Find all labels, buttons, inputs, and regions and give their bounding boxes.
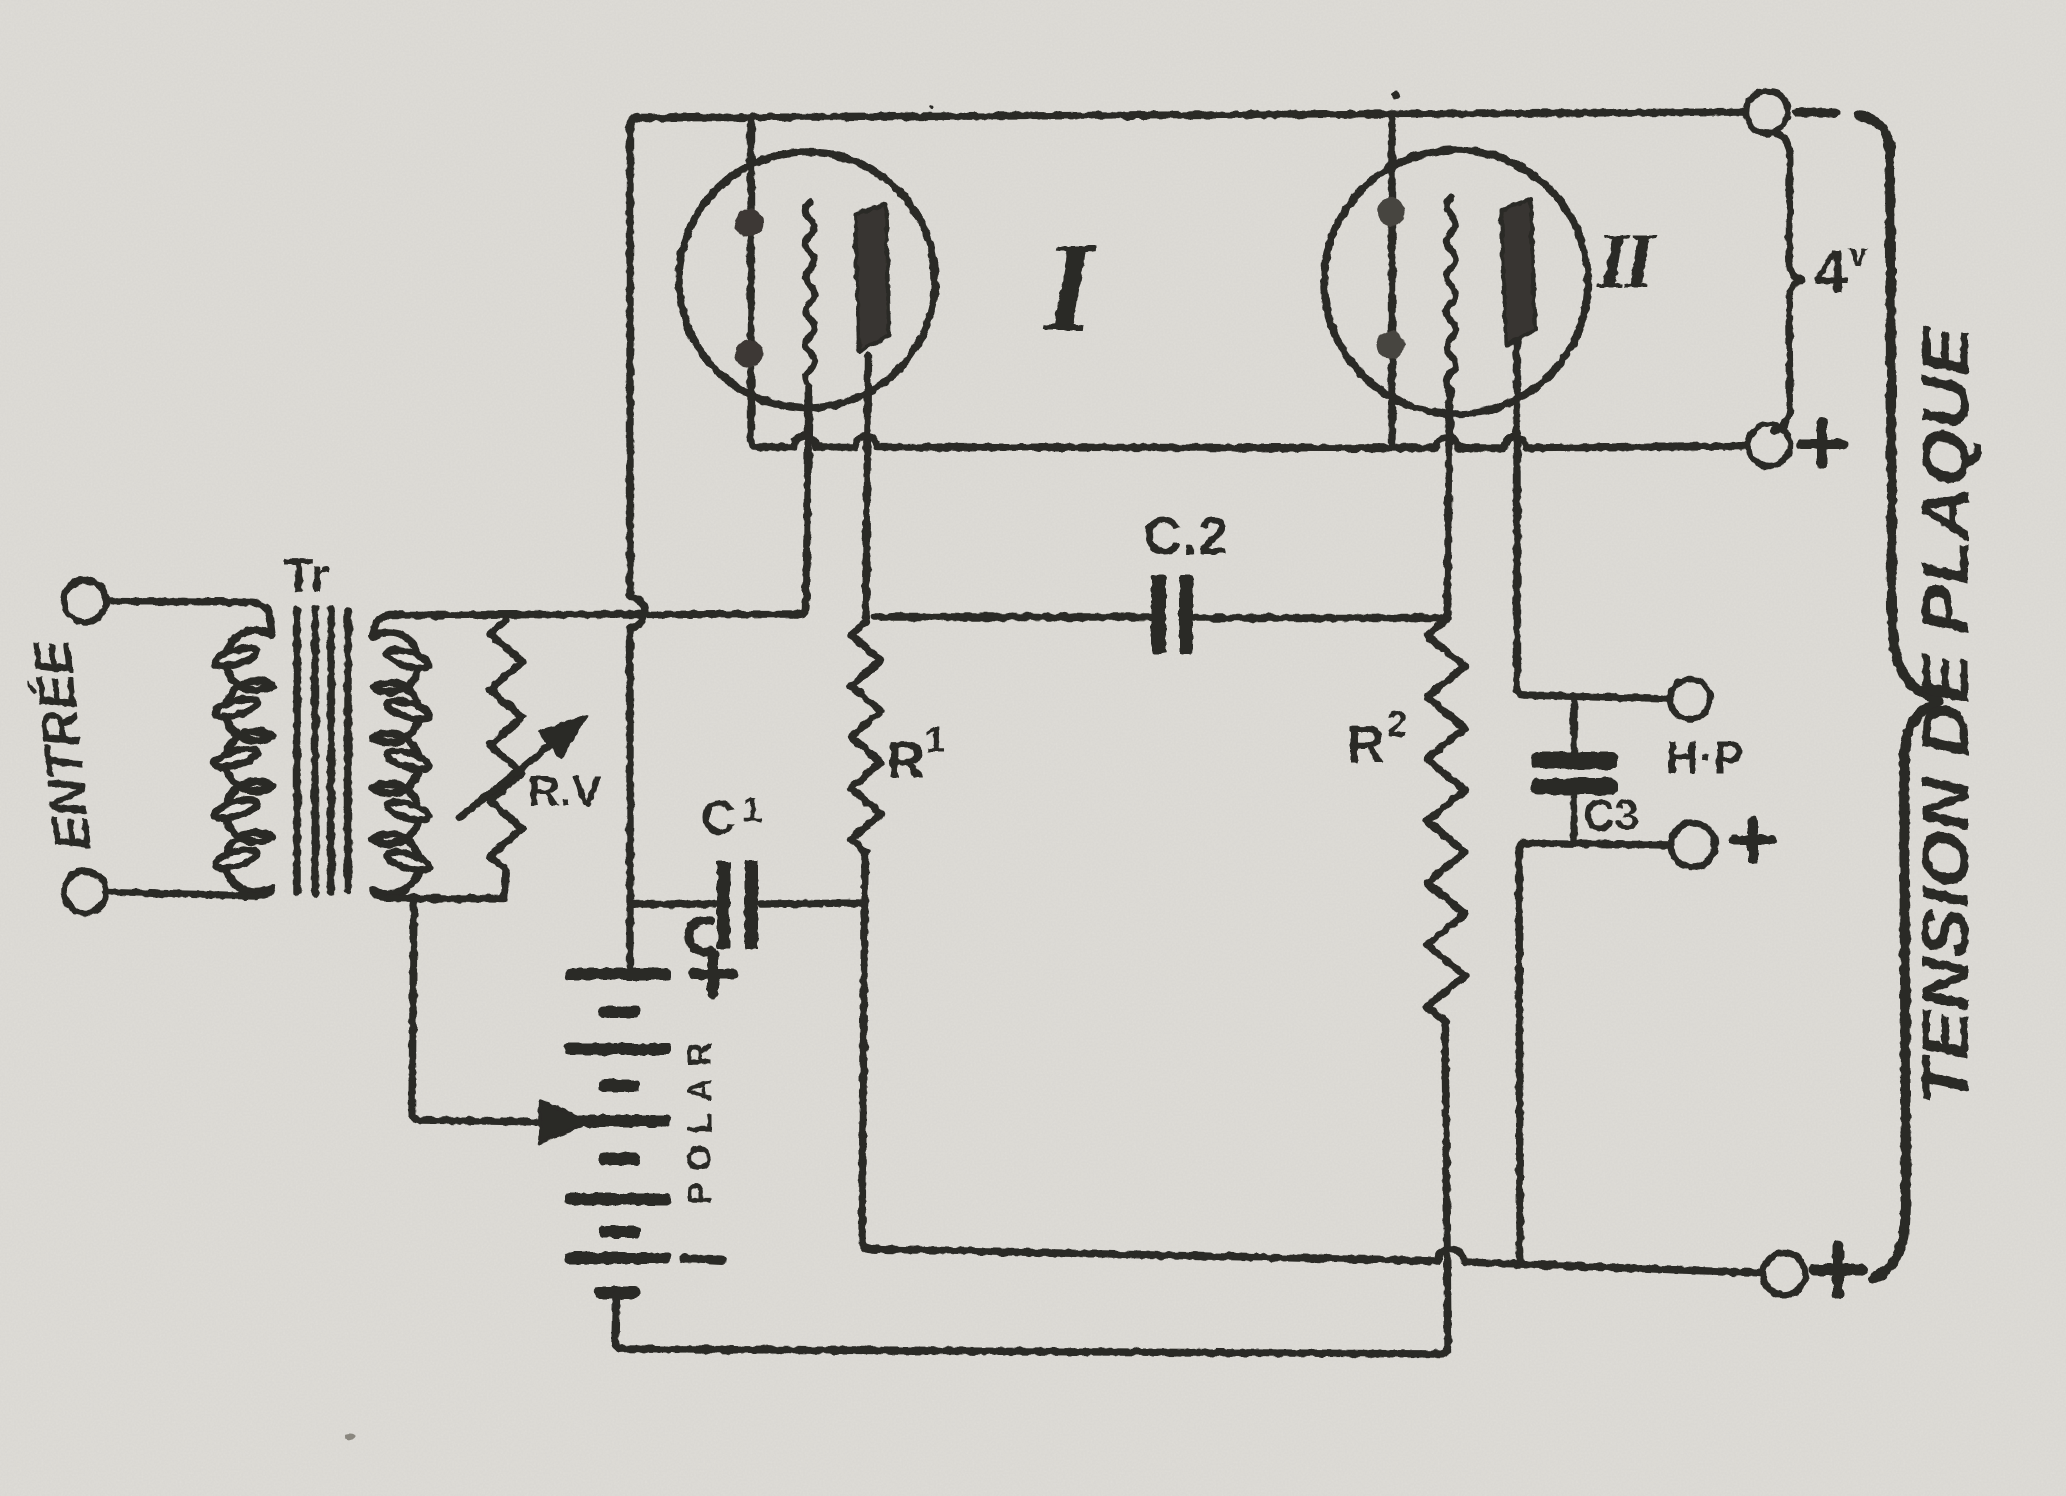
terminal: +4V filament (right) [1748, 424, 1790, 466]
ink speck near tube I [929, 105, 934, 110]
svg-text:H·P: H·P [1666, 732, 1744, 783]
wire: +HT rail with hop over R2 return wire [870, 1248, 1763, 1273]
svg-text:R: R [1347, 716, 1385, 774]
tube II grid (wavy electrode) [1447, 197, 1456, 391]
label C1 [701, 789, 762, 845]
tube I envelope [679, 152, 935, 408]
wire: tube I grid lead down to grid bus [799, 386, 809, 614]
transformer Tr primary winding [226, 630, 272, 892]
svg-text:2: 2 [1387, 703, 1407, 744]
wire: tap from secondary bottom down to battery arrow [412, 899, 545, 1122]
minus mark at battery POLAR bottom [684, 1258, 722, 1260]
svg-text:I: I [1042, 216, 1098, 358]
brace: TENSION DE PLAQUE (right side) [1858, 116, 1939, 1278]
brace: 4V filament battery [1774, 134, 1803, 431]
plus sign at H.P bottom terminal [1734, 821, 1772, 859]
transformer Tr secondary winding eyes [385, 646, 431, 874]
wire: secondary top to tube I grid (grid bus) [373, 614, 799, 637]
svg-text:4: 4 [1814, 238, 1848, 305]
wire: R1 bottom to C1 junction and down to +HT rail corner [862, 852, 870, 1249]
wire: C3 lower stub [1570, 795, 1577, 843]
resistor R1 [851, 622, 881, 852]
wire: +4V filament bus with hops over grid and plate leads [758, 436, 1747, 448]
R.V arrow head [539, 716, 586, 758]
minus sign at - terminal [1797, 112, 1835, 113]
wire: C1 horizontal wire left of plates [630, 900, 714, 907]
svg-text:R: R [887, 732, 925, 790]
stray C mark near battery plus [688, 920, 712, 952]
tube II filament pin dot upper [1377, 198, 1405, 226]
wire: C1 horizontal wire right of plates [761, 903, 862, 904]
wire: H.P top terminal wire from tube II plate [1524, 695, 1670, 699]
svg-text:R.V: R.V [528, 767, 602, 816]
label 4V [1814, 236, 1868, 305]
terminal: ENTREE upper [64, 580, 106, 622]
wire: left tall vertical (grid return) with hop over grid wire [630, 117, 645, 966]
wire: tube I plate lead down to R1 top junction [866, 356, 868, 617]
tube I grid (wavy electrode) [806, 202, 815, 386]
capacitor C3 [1531, 752, 1618, 795]
tube I plate (anode slab) [855, 204, 889, 351]
wire: tube II grid lead down to C2/R2 junction [1447, 391, 1450, 618]
svg-text:C3: C3 [1583, 791, 1639, 840]
wire: secondary bottom to R.V bottom with tap junction [373, 890, 503, 900]
wire: transformer primary bottom to ENTREE lower terminal [106, 888, 272, 897]
wire: grid circuit of tube II / C2 coupling wire [874, 617, 1443, 618]
plus sign at +HT terminal [1814, 1246, 1862, 1294]
wire: tube II plate lead down to H.P terminal wire [1517, 342, 1524, 695]
svg-text:C.2: C.2 [1143, 507, 1228, 566]
tube II envelope [1324, 150, 1588, 414]
transformer Tr primary winding eyes [213, 644, 259, 872]
plus sign at +4V terminal [1801, 423, 1843, 465]
label R1 [887, 719, 945, 790]
tube I filament pin dot upper [735, 209, 763, 237]
capacitor C1 [717, 861, 758, 949]
wire: bottom return wire from battery to R2 bottom [622, 1025, 1448, 1354]
svg-text:1: 1 [925, 719, 945, 760]
battery POLAR plates [565, 968, 671, 1299]
tube II filament wire [1388, 117, 1395, 447]
terminal: HT negative (top right) [1746, 91, 1788, 133]
transformer Tr core [297, 608, 348, 894]
plus sign at battery POLAR top [694, 955, 732, 993]
svg-text:TENSION DE PLAQUE: TENSION DE PLAQUE [1908, 325, 1982, 1105]
wire: H.P bottom terminal wire and drop to +HT rail [1519, 843, 1671, 1261]
tube I filament wire [751, 117, 758, 447]
resistor R.V (volume control) [490, 620, 522, 899]
terminal: H.P bottom [1671, 823, 1715, 867]
svg-text:Tr: Tr [284, 550, 329, 603]
R.V arrow shaft [459, 746, 549, 818]
wire: top negative HT rail from left vertical to - terminal [637, 112, 1745, 118]
svg-text:1: 1 [742, 789, 762, 830]
wire: ENTREE upper terminal to transformer primary [106, 601, 272, 635]
wire: C3 upper stub [1570, 697, 1577, 752]
terminal: +HT (bottom right) [1763, 1253, 1805, 1295]
tube I filament pin dot lower [735, 340, 763, 368]
svg-text:C: C [701, 792, 736, 845]
svg-text:v: v [1849, 236, 1868, 273]
ink speck near tube II [1392, 91, 1400, 99]
label R2 [1347, 703, 1407, 774]
transformer Tr secondary winding [373, 632, 419, 894]
svg-text:POLAR: POLAR [681, 1031, 719, 1205]
wire: battery bottom terminal stem to bottom return wire [615, 1296, 622, 1349]
svg-text:II: II [1597, 217, 1657, 304]
capacitor C2 [1151, 575, 1193, 654]
battery tap arrow head [539, 1101, 592, 1143]
terminal: H.P top [1670, 679, 1710, 719]
resistor R2 [1427, 620, 1465, 1022]
tube II plate (anode slab) [1501, 199, 1535, 345]
terminal: ENTREE lower [64, 871, 106, 913]
ink speck bottom left [345, 1434, 355, 1440]
tube II filament pin dot lower [1377, 331, 1405, 359]
